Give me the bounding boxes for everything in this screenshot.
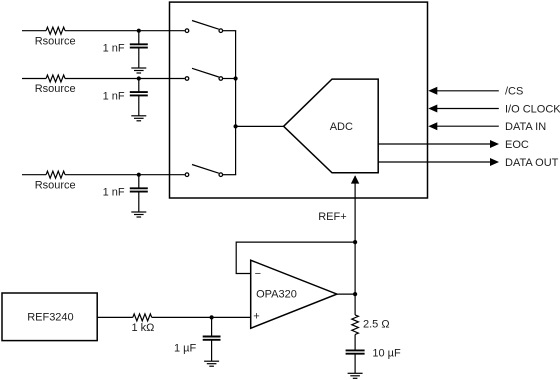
ground (10 uF cap)	[348, 373, 363, 378]
node ch2 cap junction	[137, 76, 141, 80]
wire channel 2 input	[22, 78, 185, 80]
svg-text:1 nF: 1 nF	[103, 43, 125, 55]
ground (1 uF cap)	[204, 361, 219, 366]
label 2.5 ohm	[363, 319, 390, 331]
svg-text:EOC: EOC	[505, 139, 529, 151]
svg-text:Rsource: Rsource	[35, 83, 76, 95]
junction op-amp output / REF+ line	[353, 292, 357, 296]
label OPA320	[256, 288, 297, 300]
wire op-amp output	[337, 293, 355, 295]
wire channel 3 input	[22, 174, 185, 176]
svg-text:2.5 Ω: 2.5 Ω	[363, 319, 390, 331]
label 1 kohm	[132, 322, 155, 334]
wire REF+ node to op-amp output node	[354, 242, 356, 294]
junction 1uF cap node	[210, 315, 214, 319]
resistor Rsource (ch2)	[46, 75, 65, 82]
wire feedback loop (output to inverting input)	[236, 242, 355, 273]
label 1 nF (ch1)	[103, 43, 125, 55]
resistor 1 kohm	[133, 314, 152, 321]
ground (ch1 cap)	[131, 68, 146, 73]
pin label + (non-inverting input)	[253, 310, 259, 322]
wire DATA IN input with arrowhead	[428, 122, 499, 130]
wire DATA OUT output with arrowhead	[378, 158, 499, 166]
capacitor 10 uF	[346, 350, 365, 373]
ADC chip outline	[170, 2, 428, 198]
label Rsource (ch2)	[35, 83, 76, 95]
wire EOC output with arrowhead	[378, 140, 499, 148]
svg-text:/CS: /CS	[505, 86, 523, 98]
svg-text:10 µF: 10 µF	[372, 347, 401, 359]
label 1 nF (ch2)	[103, 90, 125, 102]
svg-text:ADC: ADC	[330, 121, 353, 133]
wire REF+ to ADC with arrowhead	[351, 175, 359, 242]
wire REF3240 to 1k resistor	[97, 316, 133, 318]
capacitor 1 uF	[203, 317, 221, 361]
capacitor 1 nF (ch3)	[130, 175, 148, 212]
resistor Rsource (ch3)	[46, 171, 65, 178]
svg-text:REF3240: REF3240	[27, 311, 73, 323]
label 1 uF	[174, 342, 197, 354]
switch S3 (ch3 mux)	[185, 165, 222, 177]
label ADC	[330, 121, 353, 133]
svg-text:1 kΩ: 1 kΩ	[132, 322, 155, 334]
ground (ch3 cap)	[131, 212, 146, 217]
label 1 nF (ch3)	[103, 187, 125, 199]
label DATA OUT	[505, 157, 559, 169]
junction mux bus / ADC input	[234, 124, 238, 128]
svg-text:−: −	[255, 268, 261, 280]
svg-text:1 µF: 1 µF	[174, 342, 197, 354]
svg-text:I/O CLOCK: I/O CLOCK	[505, 103, 560, 115]
label Rsource (ch1)	[35, 35, 76, 47]
wire R to C	[354, 335, 356, 351]
resistor Rsource (ch1)	[46, 27, 65, 34]
wire 1k resistor to op-amp + input	[152, 316, 251, 318]
voltage reference REF3240	[2, 293, 97, 341]
wire S3 to mux bus	[223, 174, 237, 176]
ground (ch2 cap)	[131, 116, 146, 121]
wire channel 1 input	[22, 30, 185, 32]
label REF3240	[27, 311, 73, 323]
junction mux bus / S2	[234, 76, 238, 80]
svg-text:1 nF: 1 nF	[103, 187, 125, 199]
svg-text:REF+: REF+	[318, 211, 346, 223]
label 10 uF	[372, 347, 401, 359]
resistor 2.5 ohm	[352, 315, 359, 335]
svg-text:Rsource: Rsource	[35, 35, 76, 47]
wire S1 to mux bus	[223, 30, 237, 32]
label REF+	[318, 211, 346, 223]
label DATA IN	[505, 121, 546, 133]
svg-text:+: +	[253, 310, 259, 322]
svg-text:DATA OUT: DATA OUT	[505, 157, 559, 169]
svg-text:1 nF: 1 nF	[103, 90, 125, 102]
node ch3 cap junction	[137, 173, 141, 177]
switch S2 (ch2 mux)	[185, 68, 222, 80]
pin label - (inverting input)	[255, 268, 261, 280]
junction feedback / REF+ line	[353, 240, 357, 244]
svg-text:DATA IN: DATA IN	[505, 121, 546, 133]
label I/O CLOCK	[505, 103, 560, 115]
label /CS	[505, 86, 523, 98]
wire S2 to mux bus	[223, 78, 237, 80]
label Rsource (ch3)	[35, 179, 76, 191]
wire /CS input with arrowhead	[428, 87, 499, 95]
svg-text:OPA320: OPA320	[256, 288, 297, 300]
wire mux bus	[235, 31, 237, 175]
switch S1 (ch1 mux)	[185, 21, 222, 33]
node ch1 cap junction	[137, 29, 141, 33]
op-amp ADC block	[284, 79, 379, 173]
svg-text:Rsource: Rsource	[35, 179, 76, 191]
capacitor 1 nF (ch2)	[130, 79, 148, 116]
wire output node down to R	[354, 294, 356, 315]
wire I/O CLOCK input with arrowhead	[428, 105, 499, 113]
wire mux to ADC	[236, 125, 284, 127]
capacitor 1 nF (ch1)	[130, 31, 148, 68]
op-amp U1 OPA320	[251, 260, 337, 328]
label EOC	[505, 139, 529, 151]
